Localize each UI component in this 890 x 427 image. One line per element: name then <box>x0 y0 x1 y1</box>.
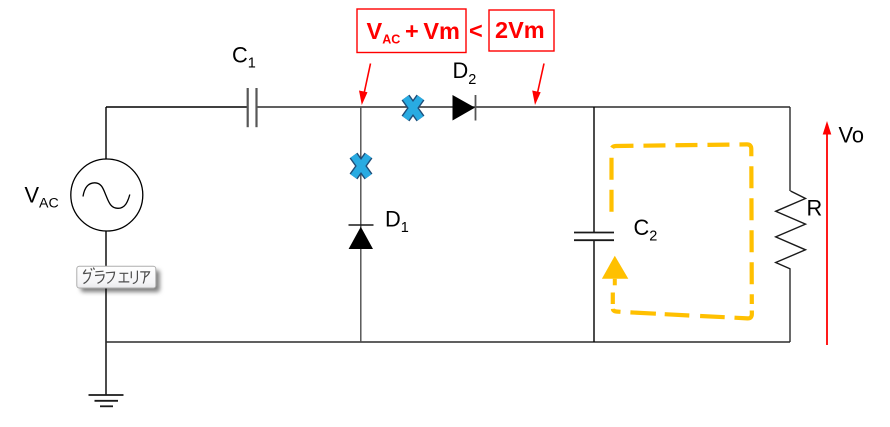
wire: right rail top <box>789 107 791 191</box>
annotation box V_AC + Vm <box>357 9 466 53</box>
X mark on D1 branch <box>354 156 369 177</box>
capacitor C2 <box>574 233 614 241</box>
wire: right rail bottom <box>789 269 791 342</box>
annotation box 2Vm <box>489 10 554 51</box>
wire: top rail left segment (source top to C1 left plate) <box>106 106 248 108</box>
annotation: less-than sign <box>469 18 483 44</box>
tooltip "graph area" <box>77 266 156 288</box>
orange arrow (current direction up through C2) <box>602 256 628 285</box>
label V_AC <box>25 183 59 212</box>
wire: from source bottom down to bottom rail and ground <box>105 231 107 395</box>
red callout arrow 2 (to D2 cathode wire) <box>532 64 544 106</box>
capacitor C1 <box>248 88 257 127</box>
output arrow Vo <box>823 121 832 345</box>
svg-text:2Vm: 2Vm <box>495 17 545 43</box>
X mark on top rail <box>406 98 421 119</box>
svg-text:D2: D2 <box>453 58 477 88</box>
svg-text:<: < <box>469 18 483 44</box>
wire: top rail right segment (C1 right plate to right rail) <box>257 106 791 108</box>
wire: left vertical from top rail to source <box>105 107 107 160</box>
orange dashed current loop: left, top and right sides <box>611 144 751 304</box>
ground <box>89 395 124 406</box>
red callout arrow 1 (to node A) <box>359 64 371 106</box>
label Vo <box>839 123 864 148</box>
diode D1 <box>349 225 374 249</box>
label D2 <box>453 58 477 88</box>
katakana ri <box>131 271 137 284</box>
label C1 <box>232 43 256 72</box>
svg-text:D1: D1 <box>385 207 409 237</box>
label C2 <box>634 215 658 244</box>
katakana ra <box>95 271 104 283</box>
svg-text:VAC + Vm: VAC + Vm <box>367 18 460 47</box>
svg-text:VAC: VAC <box>25 183 59 212</box>
katakana a <box>140 272 149 284</box>
katakana gu <box>83 268 94 284</box>
diode D2 <box>453 95 476 121</box>
katakana fu <box>106 272 115 283</box>
svg-text:C1: C1 <box>232 43 256 72</box>
svg-text:C2: C2 <box>634 215 658 244</box>
wire: bottom rail <box>106 341 790 343</box>
resistor R <box>776 191 806 269</box>
label R <box>807 196 823 221</box>
voltage source V_AC (circle with sine) <box>71 159 143 231</box>
wire: C2 branch vertical <box>593 107 595 342</box>
svg-text:R: R <box>807 196 823 221</box>
svg-text:Vo: Vo <box>839 123 864 148</box>
orange dashed current loop: bottom side dashes <box>613 293 752 319</box>
label D1 <box>385 207 409 237</box>
node A: junction on top rail, branch to D1 <box>360 107 362 342</box>
katakana e <box>119 273 130 282</box>
